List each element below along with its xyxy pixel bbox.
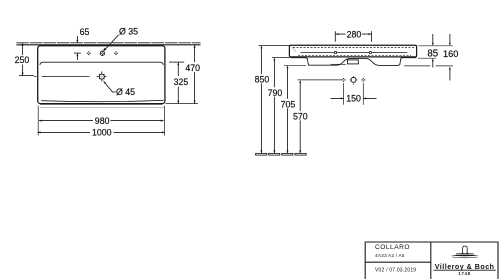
left view dimension texts	[14, 27, 201, 138]
svg-text:790: 790	[268, 88, 283, 98]
text 470	[185, 63, 201, 71]
ext line 850 (slab top left)	[259, 45, 291, 47]
dim 850 line	[260, 48, 262, 153]
svg-text:Ø 35: Ø 35	[119, 27, 138, 37]
drain outlet rectangle	[348, 60, 359, 64]
title block vertical divider	[430, 242, 432, 279]
tap hole cross right	[114, 51, 118, 55]
text 705	[280, 99, 296, 108]
drain centerline	[34, 76, 90, 78]
svg-text:705: 705	[281, 99, 296, 109]
ext line bottom-right of basin	[166, 103, 199, 105]
V&B logo	[451, 246, 480, 258]
dim 1000	[38, 131, 90, 133]
ext line 705 (bowl bottom)	[284, 64, 306, 66]
dim 570 line	[299, 83, 301, 154]
tap hole circle (Ø35)	[100, 51, 105, 56]
floor bar segments	[256, 153, 267, 155]
logo underline	[434, 269, 496, 271]
right view dimension texts	[254, 30, 458, 122]
basin outer outline	[38, 46, 165, 104]
title block frame	[365, 242, 498, 279]
dim 250 line	[22, 43, 24, 55]
text 850	[254, 74, 270, 83]
title block horizontal divider	[365, 261, 431, 263]
basin bottom edge emphasis	[40, 103, 163, 105]
dim 705 line	[287, 68, 289, 153]
slab hole right	[369, 51, 371, 53]
text 570	[292, 111, 308, 120]
dim 980	[39, 120, 93, 122]
dim 470 line	[194, 45, 196, 62]
dim 85	[432, 34, 434, 68]
svg-text:470: 470	[185, 63, 200, 73]
wall line lower (thick)	[16, 44, 200, 46]
slab corner hatch tick	[292, 47, 296, 52]
slab outline	[289, 45, 416, 57]
slab hole left	[334, 51, 336, 53]
fixing cross left	[342, 78, 346, 82]
ext line 160 bottom	[404, 65, 453, 67]
hidden line bottom (dashed)	[298, 54, 411, 56]
svg-text:150: 150	[346, 94, 361, 104]
logo ripple lens	[451, 255, 480, 257]
deck front edge line	[301, 52, 408, 54]
svg-text:160: 160	[443, 49, 458, 59]
drain wall circle	[351, 77, 356, 82]
dim 325 line	[169, 61, 184, 63]
svg-text:325: 325	[174, 77, 189, 87]
hidden line top (dashed)	[293, 47, 414, 49]
text 790	[267, 88, 283, 97]
basin bottom ghost shadow	[40, 107, 164, 109]
svg-text:4A33 A2 / A5: 4A33 A2 / A5	[375, 253, 405, 259]
text 325	[173, 77, 189, 85]
fixing cross right	[361, 78, 365, 82]
logo ripple bottom	[452, 256, 477, 259]
svg-text:1748: 1748	[458, 271, 471, 276]
leader Ø35	[105, 35, 118, 49]
svg-text:V02 / 07.03.2019: V02 / 07.03.2019	[375, 268, 416, 274]
ext line 790 (slab bottom left)	[272, 56, 290, 58]
ext line slab top right	[419, 45, 453, 47]
dim 65 leader	[76, 36, 78, 43]
text 250	[14, 56, 31, 65]
underside profile	[291, 57, 416, 66]
drain hole (Ø45)	[99, 74, 104, 79]
dim 280	[334, 31, 336, 42]
wall line upper (thin, segmented)	[16, 42, 200, 44]
tap hole cross mid	[100, 51, 104, 55]
ext line 570 (drain row)	[298, 79, 342, 81]
svg-text:570: 570	[293, 111, 308, 121]
trap recess edge	[331, 63, 346, 65]
ext line 980/1000 right	[164, 106, 166, 136]
svg-text:Ø 45: Ø 45	[116, 87, 135, 97]
bowl back deck line	[40, 62, 163, 65]
svg-text:250: 250	[15, 55, 30, 65]
dim 150	[343, 83, 345, 105]
dim 160	[449, 34, 451, 81]
bowl front line	[41, 100, 163, 101]
svg-text:280: 280	[347, 30, 362, 40]
ext line 85 bottom	[418, 57, 436, 59]
leader Ø45	[105, 83, 116, 92]
svg-text:980: 980	[95, 116, 110, 126]
dim 790 line	[273, 60, 275, 153]
ext line 980/1000 left	[37, 106, 39, 136]
svg-text:1000: 1000	[92, 128, 112, 138]
logo ripple top	[456, 252, 474, 255]
svg-text:COLLARO: COLLARO	[375, 244, 410, 251]
logo arch	[463, 246, 468, 253]
svg-text:85: 85	[427, 49, 438, 60]
svg-text:Villeroy & Boch: Villeroy & Boch	[435, 263, 495, 271]
tap hole cross left	[87, 51, 91, 55]
svg-text:65: 65	[80, 27, 90, 37]
svg-text:850: 850	[255, 74, 270, 84]
